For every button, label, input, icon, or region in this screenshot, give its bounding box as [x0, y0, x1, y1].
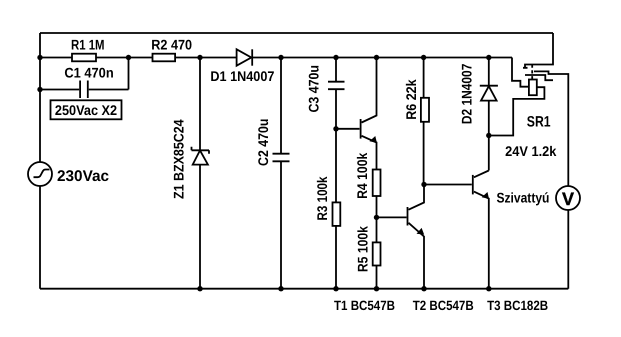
node R1 right	[126, 55, 131, 60]
node T3 emitter bottom	[486, 286, 491, 291]
diode D2	[480, 58, 498, 171]
node D2 top	[486, 55, 491, 60]
node D2 bottom	[486, 133, 491, 138]
svg-text:Z1 BZX85C24: Z1 BZX85C24	[171, 119, 187, 199]
wire bottom rail	[40, 288, 568, 290]
resistor R5	[373, 242, 381, 288]
svg-text:D2 1N4007: D2 1N4007	[458, 63, 474, 124]
svg-text:230Vac: 230Vac	[57, 168, 109, 185]
source V1 230Vac	[28, 162, 52, 186]
svg-text:T2 BC547B: T2 BC547B	[413, 298, 474, 313]
capacitor C1	[40, 58, 129, 99]
capacitor C2	[273, 58, 290, 289]
svg-text:R6 22k: R6 22k	[403, 79, 419, 120]
svg-text:T1 BC547B: T1 BC547B	[334, 298, 395, 313]
node Z1 top	[197, 55, 202, 60]
node R1 left	[37, 55, 42, 60]
node T2 base	[374, 215, 379, 220]
node R3 bottom	[333, 286, 338, 291]
node T2 emitter bottom	[421, 286, 426, 291]
svg-text:24V 1.2k: 24V 1.2k	[505, 143, 556, 159]
node C3 top	[333, 55, 338, 60]
node T3 base	[421, 182, 426, 187]
node C2 top	[278, 55, 283, 60]
svg-text:C2 470u: C2 470u	[255, 119, 271, 166]
relay SR1 switch	[523, 33, 568, 186]
voltmeter V	[556, 186, 580, 289]
svg-text:T3 BC182B: T3 BC182B	[487, 298, 548, 313]
resistor R3	[333, 129, 341, 289]
node T1 collector top	[374, 55, 379, 60]
zener Z1	[192, 58, 210, 289]
resistor R1	[72, 54, 96, 62]
svg-text:C3 470u: C3 470u	[306, 65, 322, 113]
relay SR1 coil	[489, 58, 545, 136]
node C2 bottom	[278, 286, 283, 291]
svg-text:R1 1M: R1 1M	[71, 37, 105, 53]
svg-text:R4 100k: R4 100k	[354, 153, 370, 199]
resistor R4	[373, 170, 381, 243]
wire main dc rail	[40, 57, 512, 59]
wire top rail	[40, 32, 553, 34]
svg-text:V: V	[562, 189, 574, 209]
capacitor C3	[328, 58, 345, 129]
transistor T3	[424, 171, 489, 289]
resistor R2	[153, 54, 176, 62]
svg-text:C1 470n: C1 470n	[64, 64, 113, 80]
node Z1 bottom	[197, 286, 202, 291]
svg-text:250Vac X2: 250Vac X2	[55, 102, 117, 118]
svg-text:Szivattyú: Szivattyú	[497, 189, 550, 205]
resistor R6	[421, 58, 429, 185]
svg-text:R2 470: R2 470	[151, 37, 192, 53]
node R6 top	[421, 55, 426, 60]
transistor T2	[377, 185, 425, 289]
transistor T1	[336, 58, 377, 170]
svg-text:D1 1N4007: D1 1N4007	[210, 68, 274, 84]
svg-text:SR1: SR1	[527, 114, 551, 131]
label box 250Vac X2	[51, 100, 122, 119]
svg-text:R5 100k: R5 100k	[355, 226, 371, 272]
node T1 base	[333, 126, 338, 131]
node R5 bottom	[374, 286, 379, 291]
node C1 left	[37, 87, 42, 92]
diode D1	[237, 49, 253, 65]
wire left vertical mains	[39, 33, 41, 289]
svg-text:R3 100k: R3 100k	[314, 176, 330, 220]
